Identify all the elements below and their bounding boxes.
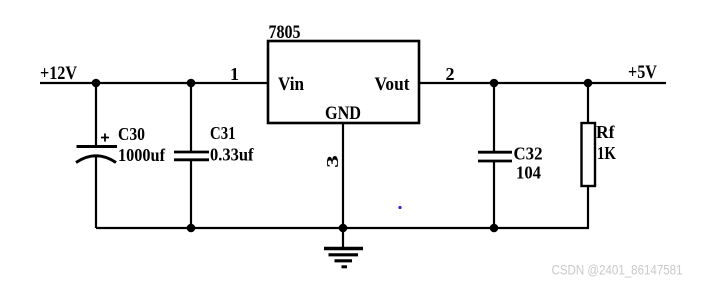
wire: bottom ground rail xyxy=(96,227,589,229)
wire: Rf upper lead xyxy=(587,83,589,123)
svg-text:C31: C31 xyxy=(210,123,236,143)
pin label Vin xyxy=(278,74,304,95)
resistor Rf xyxy=(582,123,596,186)
label Rf xyxy=(596,122,615,142)
svg-text:Vout: Vout xyxy=(375,74,411,95)
node H: stray blue dot artifact xyxy=(398,206,401,209)
svg-text:1000uf: 1000uf xyxy=(118,145,166,165)
svg-text:1: 1 xyxy=(230,64,239,84)
node F: junction dot GND bottom xyxy=(339,224,348,233)
label C31 xyxy=(210,123,236,143)
wire: C32 upper lead xyxy=(493,83,495,152)
wire: C32 lower lead xyxy=(493,161,495,228)
pin 1 label xyxy=(230,64,239,84)
svg-text:7805: 7805 xyxy=(269,22,301,43)
svg-text:CSDN @2401_86147581: CSDN @2401_86147581 xyxy=(552,262,683,278)
node A: junction dot at C30 top xyxy=(92,79,101,88)
svg-text:0.33uf: 0.33uf xyxy=(210,145,254,165)
capacitor C31 xyxy=(174,152,209,160)
wire: C30 upper lead xyxy=(95,83,97,146)
svg-text:3: 3 xyxy=(323,155,342,168)
node D: junction dot at Rf top xyxy=(584,79,593,88)
label 0.33uf xyxy=(210,145,254,165)
label +12V xyxy=(40,63,77,84)
svg-text:+12V: +12V xyxy=(40,63,77,84)
pin label GND xyxy=(325,103,361,124)
pin 3 label (rotated) xyxy=(323,155,342,168)
svg-text:104: 104 xyxy=(516,163,541,183)
wire: +12V input rail (top left) xyxy=(40,82,268,84)
svg-text:+5V: +5V xyxy=(628,62,657,83)
label C32 xyxy=(514,144,543,164)
node G: junction dot C32 bottom xyxy=(490,224,499,233)
label watermark CSDN xyxy=(552,262,683,278)
capacitor C30 (electrolytic, polarized) xyxy=(76,134,117,163)
wire: C31 lower lead xyxy=(190,160,192,228)
svg-text:2: 2 xyxy=(446,64,455,84)
label C30 xyxy=(118,124,145,144)
label 7805 xyxy=(269,22,301,43)
svg-text:1K: 1K xyxy=(597,143,616,163)
op-amp U1: 7805 regulator box xyxy=(268,41,419,123)
label +5V xyxy=(628,62,657,83)
label 104 xyxy=(516,163,541,183)
node C: junction dot at C32 top xyxy=(490,79,499,88)
wire: GND pin lead (pin 3) xyxy=(342,123,344,248)
label 1000uf xyxy=(118,145,166,165)
wire: C31 upper lead xyxy=(190,83,192,152)
svg-text:Rf: Rf xyxy=(596,122,615,142)
wire: C30 lower lead xyxy=(95,157,97,228)
node B: junction dot at C31 top xyxy=(187,79,196,88)
svg-text:C30: C30 xyxy=(118,124,145,144)
pin label Vout xyxy=(375,74,411,95)
capacitor C32 xyxy=(478,152,512,161)
wire: Rf lower lead xyxy=(587,186,589,228)
wire: +5V output rail (top right) xyxy=(419,82,666,84)
label 1K xyxy=(597,143,616,163)
svg-text:Vin: Vin xyxy=(278,74,304,95)
pin 2 label xyxy=(446,64,455,84)
node E: junction dot C31 bottom xyxy=(187,224,196,233)
svg-text:C32: C32 xyxy=(514,144,543,164)
ground xyxy=(324,249,363,267)
svg-text:GND: GND xyxy=(325,103,361,124)
